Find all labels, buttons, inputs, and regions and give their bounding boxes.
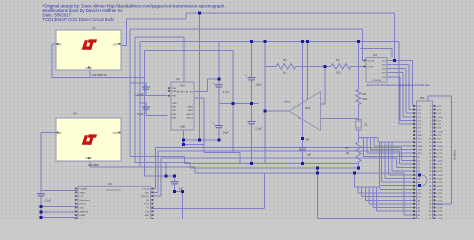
wire [90, 166, 195, 168]
wire [399, 77, 401, 121]
wire rail y41 [140, 41, 399, 43]
wire [361, 29, 363, 60]
regulator U1 LM7805 [56, 26, 121, 77]
wire fan [385, 178, 414, 180]
wire [360, 48, 392, 50]
svg-text:x IO26: x IO26 [436, 200, 443, 202]
wire U3 pin [387, 68, 406, 70]
LT logo 1 [82, 39, 97, 49]
wire U2 pin [194, 91, 207, 93]
wire [145, 50, 234, 52]
junction [250, 40, 253, 43]
capacitor C10 [299, 148, 312, 157]
wire [130, 82, 146, 84]
wire [41, 190, 78, 192]
wire fan [363, 138, 365, 157]
wire [358, 105, 360, 119]
wire fan [391, 142, 393, 171]
svg-text:x IO29: x IO29 [436, 211, 443, 213]
wire [175, 191, 183, 193]
svg-text:R4: R4 [336, 58, 340, 62]
junction [198, 138, 201, 141]
svg-text:x IO10: x IO10 [436, 142, 443, 144]
svg-text:CLAMP: CLAMP [80, 188, 88, 191]
wire fan [361, 187, 363, 196]
wire fan [379, 142, 381, 186]
svg-text:0.1µF: 0.1µF [45, 199, 52, 203]
wire [406, 112, 414, 114]
svg-text:x IO1: x IO1 [436, 110, 442, 112]
wire [134, 37, 136, 163]
junction [164, 174, 167, 177]
svg-text:VB/ClkIn: VB/ClkIn [141, 196, 150, 198]
wire fan [382, 181, 414, 183]
wire [358, 162, 360, 168]
wire rail y29 [130, 28, 362, 30]
wire fan [371, 149, 414, 151]
wire [130, 155, 185, 157]
wire [265, 65, 276, 67]
wire fan [377, 138, 379, 143]
wire [160, 158, 162, 196]
wire fan [389, 174, 414, 176]
wire U2 Vcc pin [183, 37, 185, 82]
wire V+ supply [307, 42, 309, 100]
wire box2 GND [89, 161, 91, 167]
wire [218, 42, 220, 85]
capacitor C4 [137, 107, 150, 116]
junction [182, 143, 185, 146]
wire rail y173 [195, 172, 404, 174]
IC U2 ATtiny [168, 77, 194, 130]
junction [264, 40, 267, 43]
wire [129, 29, 131, 156]
svg-text:AIN1: AIN1 [188, 109, 194, 112]
wire [428, 95, 452, 97]
resistor R7 [345, 142, 361, 162]
svg-text:0.1µF: 0.1µF [137, 112, 144, 116]
wire [184, 139, 219, 141]
wire [126, 19, 128, 45]
svg-text:+: + [299, 117, 301, 121]
svg-text:PORT B: PORT B [453, 150, 457, 160]
wire [324, 66, 326, 104]
wire [413, 105, 414, 107]
svg-text:+ 5Vdc: + 5Vdc [436, 117, 443, 119]
wire fan [357, 187, 359, 193]
wire fan [392, 170, 414, 172]
svg-text:RS: RS [146, 200, 150, 202]
svg-text:+ 5Vdc: + 5Vdc [436, 218, 443, 219]
wire [203, 98, 205, 152]
wire U3 pin [387, 72, 403, 74]
wire [402, 159, 414, 161]
svg-text:U4: U4 [73, 112, 77, 116]
svg-text:OS4: OS4 [382, 73, 387, 75]
svg-text:20k: 20k [363, 97, 368, 101]
wire [218, 88, 220, 126]
wire fan [380, 185, 414, 187]
svg-text:100: 100 [336, 71, 341, 75]
wire fan [368, 187, 370, 204]
svg-text:GND: GND [418, 135, 423, 137]
wire [194, 167, 196, 173]
wire fan [373, 138, 375, 146]
wire fan [381, 142, 383, 182]
op-amp U5 [284, 92, 321, 142]
svg-text:X1: X1 [364, 123, 368, 127]
wire box1 IN [52, 43, 56, 45]
wire [405, 69, 407, 114]
svg-text:x IO6: x IO6 [436, 128, 442, 130]
regulator U4 LM7805 [56, 112, 121, 167]
wire rail y163 [185, 163, 359, 165]
wire [263, 173, 265, 209]
wire [403, 173, 405, 215]
svg-text:x IO14: x IO14 [436, 157, 443, 159]
svg-text:4.7µF: 4.7µF [223, 90, 230, 94]
wire [41, 211, 78, 213]
wire [139, 42, 141, 168]
svg-text:Vout: Vout [284, 100, 290, 104]
wire [302, 150, 304, 163]
svg-text:U1: U1 [92, 26, 96, 30]
resistor R3 [276, 58, 296, 75]
wire [135, 36, 184, 38]
wire feedback [264, 66, 266, 163]
svg-text:U3: U3 [373, 53, 377, 57]
svg-text:SHUT: SHUT [80, 192, 87, 194]
IC U6 TCD1304AP CCD [75, 182, 154, 221]
wire [409, 109, 414, 111]
svg-text:TCD1304: TCD1304 [372, 80, 382, 82]
svg-text:+ 5Vdc: + 5Vdc [436, 189, 443, 191]
wire [436, 203, 452, 205]
wire op-amp out [265, 110, 289, 112]
junction [301, 137, 304, 140]
svg-text:+: + [212, 81, 214, 85]
junction [393, 59, 396, 62]
svg-text:Blank/wait: Blank/wait [80, 199, 90, 202]
wire U3 pin [362, 59, 366, 61]
wire fan [377, 210, 414, 212]
junction [232, 102, 235, 105]
wire box1 OUT [121, 44, 127, 46]
wire [204, 151, 240, 153]
wire [354, 186, 380, 188]
junction [173, 190, 176, 193]
wire [218, 128, 220, 140]
wire fan [364, 156, 414, 158]
svg-text:x IO9: x IO9 [436, 139, 442, 141]
wire V- supply [302, 42, 304, 139]
title comment text [43, 3, 226, 22]
wire [251, 124, 253, 163]
svg-text:this IC is the VCO that can be: this IC is the VCO that can be toggled w… [367, 84, 430, 87]
junction [418, 184, 421, 187]
wire [296, 65, 331, 67]
junction [217, 138, 220, 141]
capacitor C1 [212, 81, 230, 94]
wire node [219, 103, 259, 105]
junction [250, 102, 253, 105]
wire [40, 196, 42, 219]
wire U3 pin [387, 59, 413, 61]
svg-text:GND: GND [144, 215, 149, 217]
wire [135, 162, 190, 164]
wire [145, 175, 175, 177]
capacitor C7 [171, 182, 184, 191]
wire [399, 123, 414, 125]
svg-text:ADC2: ADC2 [187, 113, 194, 116]
wire [182, 192, 184, 220]
svg-text:VB: VB [306, 138, 310, 142]
junction [316, 172, 319, 175]
wire [393, 13, 395, 61]
svg-text:x IO22: x IO22 [436, 186, 443, 188]
capacitor C5 [245, 74, 262, 87]
crystal X1 [356, 119, 368, 130]
wire [52, 77, 145, 79]
wire fan [366, 138, 368, 153]
wire [302, 139, 304, 148]
wire fan [362, 196, 414, 198]
wire [154, 148, 156, 189]
wire [398, 42, 400, 124]
svg-text:JP1: JP1 [420, 96, 426, 100]
wire fan [364, 187, 366, 200]
junction [301, 40, 304, 43]
wire [135, 95, 168, 97]
wire fan [369, 203, 413, 205]
svg-text:x IO28: x IO28 [436, 208, 443, 210]
wire CCD pin [151, 195, 161, 197]
junction [198, 11, 201, 14]
svg-text:x IO5: x IO5 [436, 124, 442, 126]
svg-text:+: + [245, 74, 247, 78]
svg-text:LM7805: LM7805 [88, 163, 99, 167]
junction [173, 174, 176, 177]
wire [199, 13, 201, 140]
svg-text:AIN0: AIN0 [188, 106, 194, 109]
wire fan [373, 207, 414, 209]
svg-text:+: + [212, 122, 214, 126]
wire [239, 152, 241, 163]
junction [181, 190, 184, 193]
wire [317, 217, 413, 219]
svg-text:U2: U2 [176, 77, 180, 81]
capacitor C9 [248, 122, 263, 131]
wire [145, 103, 147, 107]
svg-text:ICG2: ICG2 [144, 204, 150, 206]
wire [157, 151, 159, 192]
wire fan [376, 187, 378, 211]
resistor R6 [356, 90, 368, 105]
resistor R4 [331, 58, 351, 75]
wire [207, 78, 219, 80]
svg-text:+ 5Vdc: + 5Vdc [436, 160, 443, 162]
wire U3 pin [387, 76, 400, 78]
svg-text:Pin#28: Pin#28 [142, 189, 150, 191]
wire [146, 115, 168, 117]
connector JP1 [413, 96, 443, 220]
svg-text:R3: R3 [283, 58, 287, 62]
wire right loop [451, 96, 453, 204]
wire [206, 79, 208, 92]
junction [264, 110, 267, 113]
capacitor C2 [212, 122, 229, 135]
wire [41, 217, 78, 219]
wire [399, 163, 413, 165]
wire [358, 131, 360, 143]
wire [408, 65, 410, 110]
wire [353, 173, 355, 187]
junction [324, 65, 327, 68]
wire fan [380, 188, 414, 190]
svg-text:SAMPLE: SAMPLE [80, 210, 89, 213]
wire [145, 83, 147, 87]
wire rail [158, 150, 399, 152]
svg-text:x IO21: x IO21 [436, 182, 443, 184]
wire [185, 13, 187, 19]
svg-text:R7: R7 [345, 146, 349, 150]
svg-text:IN: IN [59, 131, 62, 135]
wire rail [155, 147, 401, 149]
wire fan [378, 141, 414, 143]
svg-text:GND: GND [180, 126, 186, 129]
wire [145, 90, 147, 96]
svg-text:ADC3: ADC3 [187, 117, 194, 120]
svg-text:SDA: SDA [418, 145, 423, 148]
junction [182, 138, 185, 141]
wire [251, 80, 253, 121]
wire [402, 73, 404, 117]
svg-text:x IO2: x IO2 [436, 113, 442, 115]
svg-text:ATTINY13A: ATTINY13A [177, 91, 189, 94]
svg-text:OS2: OS2 [145, 211, 150, 213]
svg-text:ICG: ICG [80, 196, 84, 198]
svg-text:R6: R6 [363, 92, 367, 96]
wire fan [388, 142, 390, 175]
svg-text:0.1µF: 0.1µF [256, 127, 263, 131]
wire [251, 42, 253, 78]
junction [250, 162, 253, 165]
svg-text:VCC: VCC [180, 84, 185, 87]
svg-text:U5: U5 [108, 182, 112, 186]
wire [400, 119, 414, 121]
svg-text:ccd-tcd ccd-tcd: ccd-tcd ccd-tcd [106, 188, 121, 191]
svg-text:OUT: OUT [113, 131, 119, 135]
wire fan [379, 187, 381, 189]
wire top rail [186, 12, 395, 14]
wire rail [161, 157, 397, 159]
svg-text:x IO16: x IO16 [436, 164, 443, 166]
svg-text:TCD1304AP CCD Driver Circuit 9: TCD1304AP CCD Driver Circuit 9vdc [43, 17, 115, 22]
svg-text:VDD: VDD [145, 192, 150, 194]
junction [357, 167, 360, 170]
svg-text:DATA: DATA [80, 214, 86, 217]
junction [353, 172, 356, 175]
svg-text:GND: GND [80, 208, 85, 210]
capacitor C13 [37, 194, 52, 203]
junction [40, 211, 43, 214]
svg-text:OT IN: OT IN [367, 66, 373, 68]
wire [174, 184, 176, 191]
svg-text:OUT: OUT [113, 43, 119, 47]
wire [403, 116, 414, 118]
wire [358, 42, 360, 90]
wire [321, 118, 359, 120]
wire [397, 167, 414, 169]
svg-text:VCC: VCC [418, 139, 423, 141]
wire fan [372, 187, 374, 207]
svg-text:x IO25: x IO25 [436, 197, 443, 199]
wire fan [374, 145, 414, 147]
wire [151, 208, 265, 210]
wire [189, 163, 191, 168]
junction [316, 167, 319, 170]
svg-text:x IO30: x IO30 [436, 215, 443, 217]
wire fan [367, 152, 414, 154]
wire [398, 151, 400, 164]
svg-text:+ 5Vdc: + 5Vdc [436, 146, 443, 148]
wire [316, 168, 318, 218]
svg-text:x IO12: x IO12 [436, 149, 443, 151]
svg-text:LM7805 5v: LM7805 5v [92, 73, 107, 77]
wire [40, 133, 42, 194]
capacitor C3 [137, 87, 150, 96]
wire U3 pin [387, 64, 409, 66]
wire [184, 143, 205, 145]
svg-text:10µF: 10µF [223, 131, 229, 135]
svg-text:10µF: 10µF [256, 83, 262, 87]
junction [418, 173, 421, 176]
wire [264, 42, 266, 67]
svg-text:OS3: OS3 [382, 69, 387, 71]
wire fan [384, 142, 386, 178]
wire [174, 176, 176, 181]
svg-text:x IO13: x IO13 [436, 153, 443, 155]
junction [40, 216, 43, 219]
junction [357, 40, 360, 43]
wire U2 pin [195, 97, 204, 99]
wire rail gnd [359, 137, 379, 139]
wire [184, 156, 186, 163]
svg-text:IN: IN [59, 43, 62, 47]
svg-text:x IO24: x IO24 [436, 193, 443, 195]
wire [404, 214, 414, 216]
svg-text:0.1µF: 0.1µF [137, 92, 144, 96]
wire fan [358, 192, 414, 194]
wire [427, 96, 429, 101]
wire [391, 49, 393, 58]
wire CCD pin [151, 188, 156, 190]
svg-text:OS5: OS5 [382, 77, 387, 79]
wire [140, 102, 146, 104]
svg-text:1µF: 1µF [307, 153, 312, 157]
wire [396, 158, 398, 168]
svg-text:x IO17: x IO17 [436, 168, 443, 170]
svg-text:+ 5Vdc: + 5Vdc [436, 204, 443, 206]
wire fan [365, 199, 413, 201]
IC U3 VCO [364, 53, 387, 82]
wire [401, 148, 403, 161]
wire U2 GND pin [183, 130, 185, 144]
wire [232, 51, 234, 153]
wire to U3 [351, 65, 366, 67]
svg-text:x IO0: x IO0 [436, 106, 442, 108]
wire [41, 206, 78, 208]
